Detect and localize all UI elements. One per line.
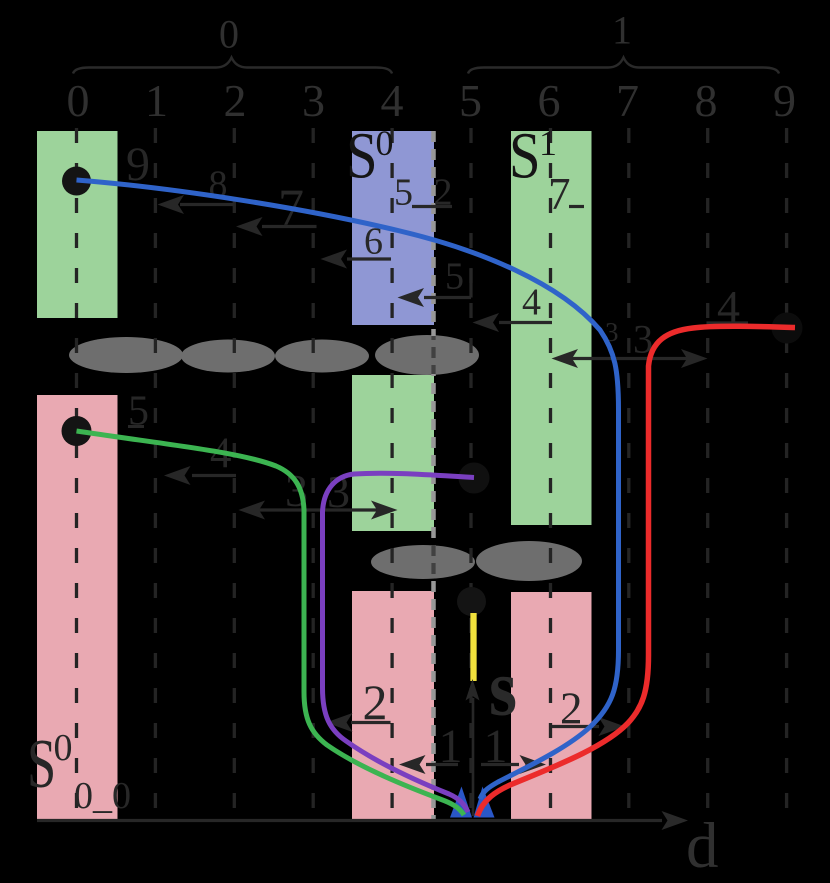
- bar 1 left line: [426, 763, 458, 766]
- bar 1 left arrowhead: [399, 755, 426, 774]
- bar 5 riser: [469, 269, 472, 298]
- red curve: [478, 326, 796, 816]
- svg-text:9: 9: [773, 75, 796, 126]
- dot green band col0: [62, 167, 91, 196]
- dashed column line 7: [627, 128, 630, 819]
- dash after 7: [569, 205, 584, 208]
- bar 2 col4 arrowhead: [326, 713, 353, 732]
- bar 2 col6 line: [552, 725, 599, 728]
- green curve: [77, 431, 465, 815]
- ellipse row1 a: [69, 337, 183, 373]
- bar 6 arrowhead: [321, 250, 348, 269]
- dashed column line 1: [154, 128, 157, 819]
- band blue col4: [352, 131, 434, 325]
- dot pink band col0: [62, 416, 92, 446]
- double arrow upper right head: [681, 349, 708, 368]
- svg-text:3: 3: [302, 75, 325, 126]
- bar 2 col6 arrowhead: [599, 717, 626, 736]
- dashed column line 8: [706, 128, 709, 819]
- band pink col0: [37, 395, 118, 819]
- dashed column line 2: [233, 128, 236, 819]
- brace right: [468, 58, 779, 74]
- black up arrow stem: [472, 698, 475, 816]
- double arrow upper left head: [552, 349, 579, 368]
- bar 1 right arrowhead: [520, 755, 547, 774]
- double arrow lower left head: [239, 501, 266, 520]
- svg-text:S: S: [27, 726, 56, 803]
- ellipse row2 a: [371, 545, 475, 579]
- purple curve: [323, 473, 475, 812]
- svg-text:s: s: [489, 644, 517, 732]
- svg-text:4: 4: [522, 282, 541, 324]
- line under 5 and 2: [412, 205, 452, 208]
- dashed column line 4: [390, 128, 393, 819]
- axis arrowhead: [662, 811, 689, 830]
- svg-text:1: 1: [145, 75, 168, 126]
- bar 4 arrowhead: [473, 313, 500, 332]
- bar 6 line: [347, 257, 391, 260]
- band green col4: [352, 375, 434, 531]
- black up arrowhead: [466, 679, 480, 701]
- gray dashed vertical line: [431, 131, 436, 819]
- dot red start: [772, 313, 803, 344]
- line under 4 col8: [707, 321, 749, 324]
- svg-text:0: 0: [67, 75, 90, 126]
- blue triangle right: [474, 787, 495, 818]
- bar 5 arrowhead: [398, 288, 425, 307]
- svg-text:S: S: [509, 120, 541, 193]
- dot purple start: [459, 463, 490, 494]
- blue triangle left: [450, 787, 472, 818]
- bar 4 line: [499, 321, 552, 324]
- ellipse row1 b: [181, 340, 275, 373]
- axis line: [37, 819, 662, 822]
- yellow line: [470, 613, 476, 681]
- ellipse row2 b: [476, 541, 582, 581]
- bar 5 line: [424, 296, 471, 299]
- svg-text:6: 6: [538, 75, 561, 126]
- bar 1 right line: [481, 763, 519, 766]
- bar 8 line: [180, 203, 234, 206]
- svg-text:2: 2: [224, 75, 247, 126]
- dashed column line 3: [312, 128, 315, 819]
- brace left: [73, 58, 392, 74]
- svg-text:7: 7: [548, 169, 571, 219]
- svg-text:5: 5: [394, 172, 413, 214]
- bar 2 col4 line: [351, 721, 391, 724]
- ellipse row1 d: [375, 335, 479, 375]
- svg-text:d: d: [686, 810, 719, 882]
- double arrow upper line: [566, 357, 692, 360]
- svg-text:5: 5: [459, 75, 482, 126]
- dashed column line 9: [785, 128, 788, 819]
- dot yellow top: [457, 587, 486, 616]
- double arrow lower right head: [371, 501, 398, 520]
- svg-text:S: S: [346, 120, 378, 193]
- band pink col6: [511, 592, 592, 819]
- band pink col4: [352, 591, 434, 819]
- bar 7 arrowhead: [236, 217, 263, 236]
- band green col0: [37, 131, 118, 318]
- svg-text:0: 0: [219, 12, 239, 57]
- svg-text:0_0: 0_0: [74, 775, 131, 817]
- bar 7 line: [262, 225, 317, 228]
- bar 8 arrowhead: [158, 195, 185, 214]
- svg-text:0: 0: [376, 123, 394, 163]
- svg-text:1: 1: [612, 8, 632, 53]
- dashed column line 6: [549, 128, 552, 819]
- svg-text:0: 0: [54, 727, 73, 769]
- dashed column line 5: [469, 128, 472, 819]
- band green col6: [511, 131, 592, 525]
- bar 4 col2 line: [192, 474, 236, 477]
- svg-text:8: 8: [695, 75, 718, 126]
- svg-text:5: 5: [445, 256, 464, 298]
- double arrow lower line: [253, 508, 383, 511]
- dashed column line 0: [75, 128, 78, 819]
- dash under 5 col1: [128, 425, 144, 428]
- bar 4 col2 arrowhead: [164, 466, 191, 485]
- ellipse row1 c: [275, 340, 369, 373]
- blue curve: [77, 180, 619, 799]
- svg-text:1: 1: [539, 123, 557, 163]
- svg-text:7: 7: [616, 75, 639, 126]
- svg-text:4: 4: [381, 75, 404, 126]
